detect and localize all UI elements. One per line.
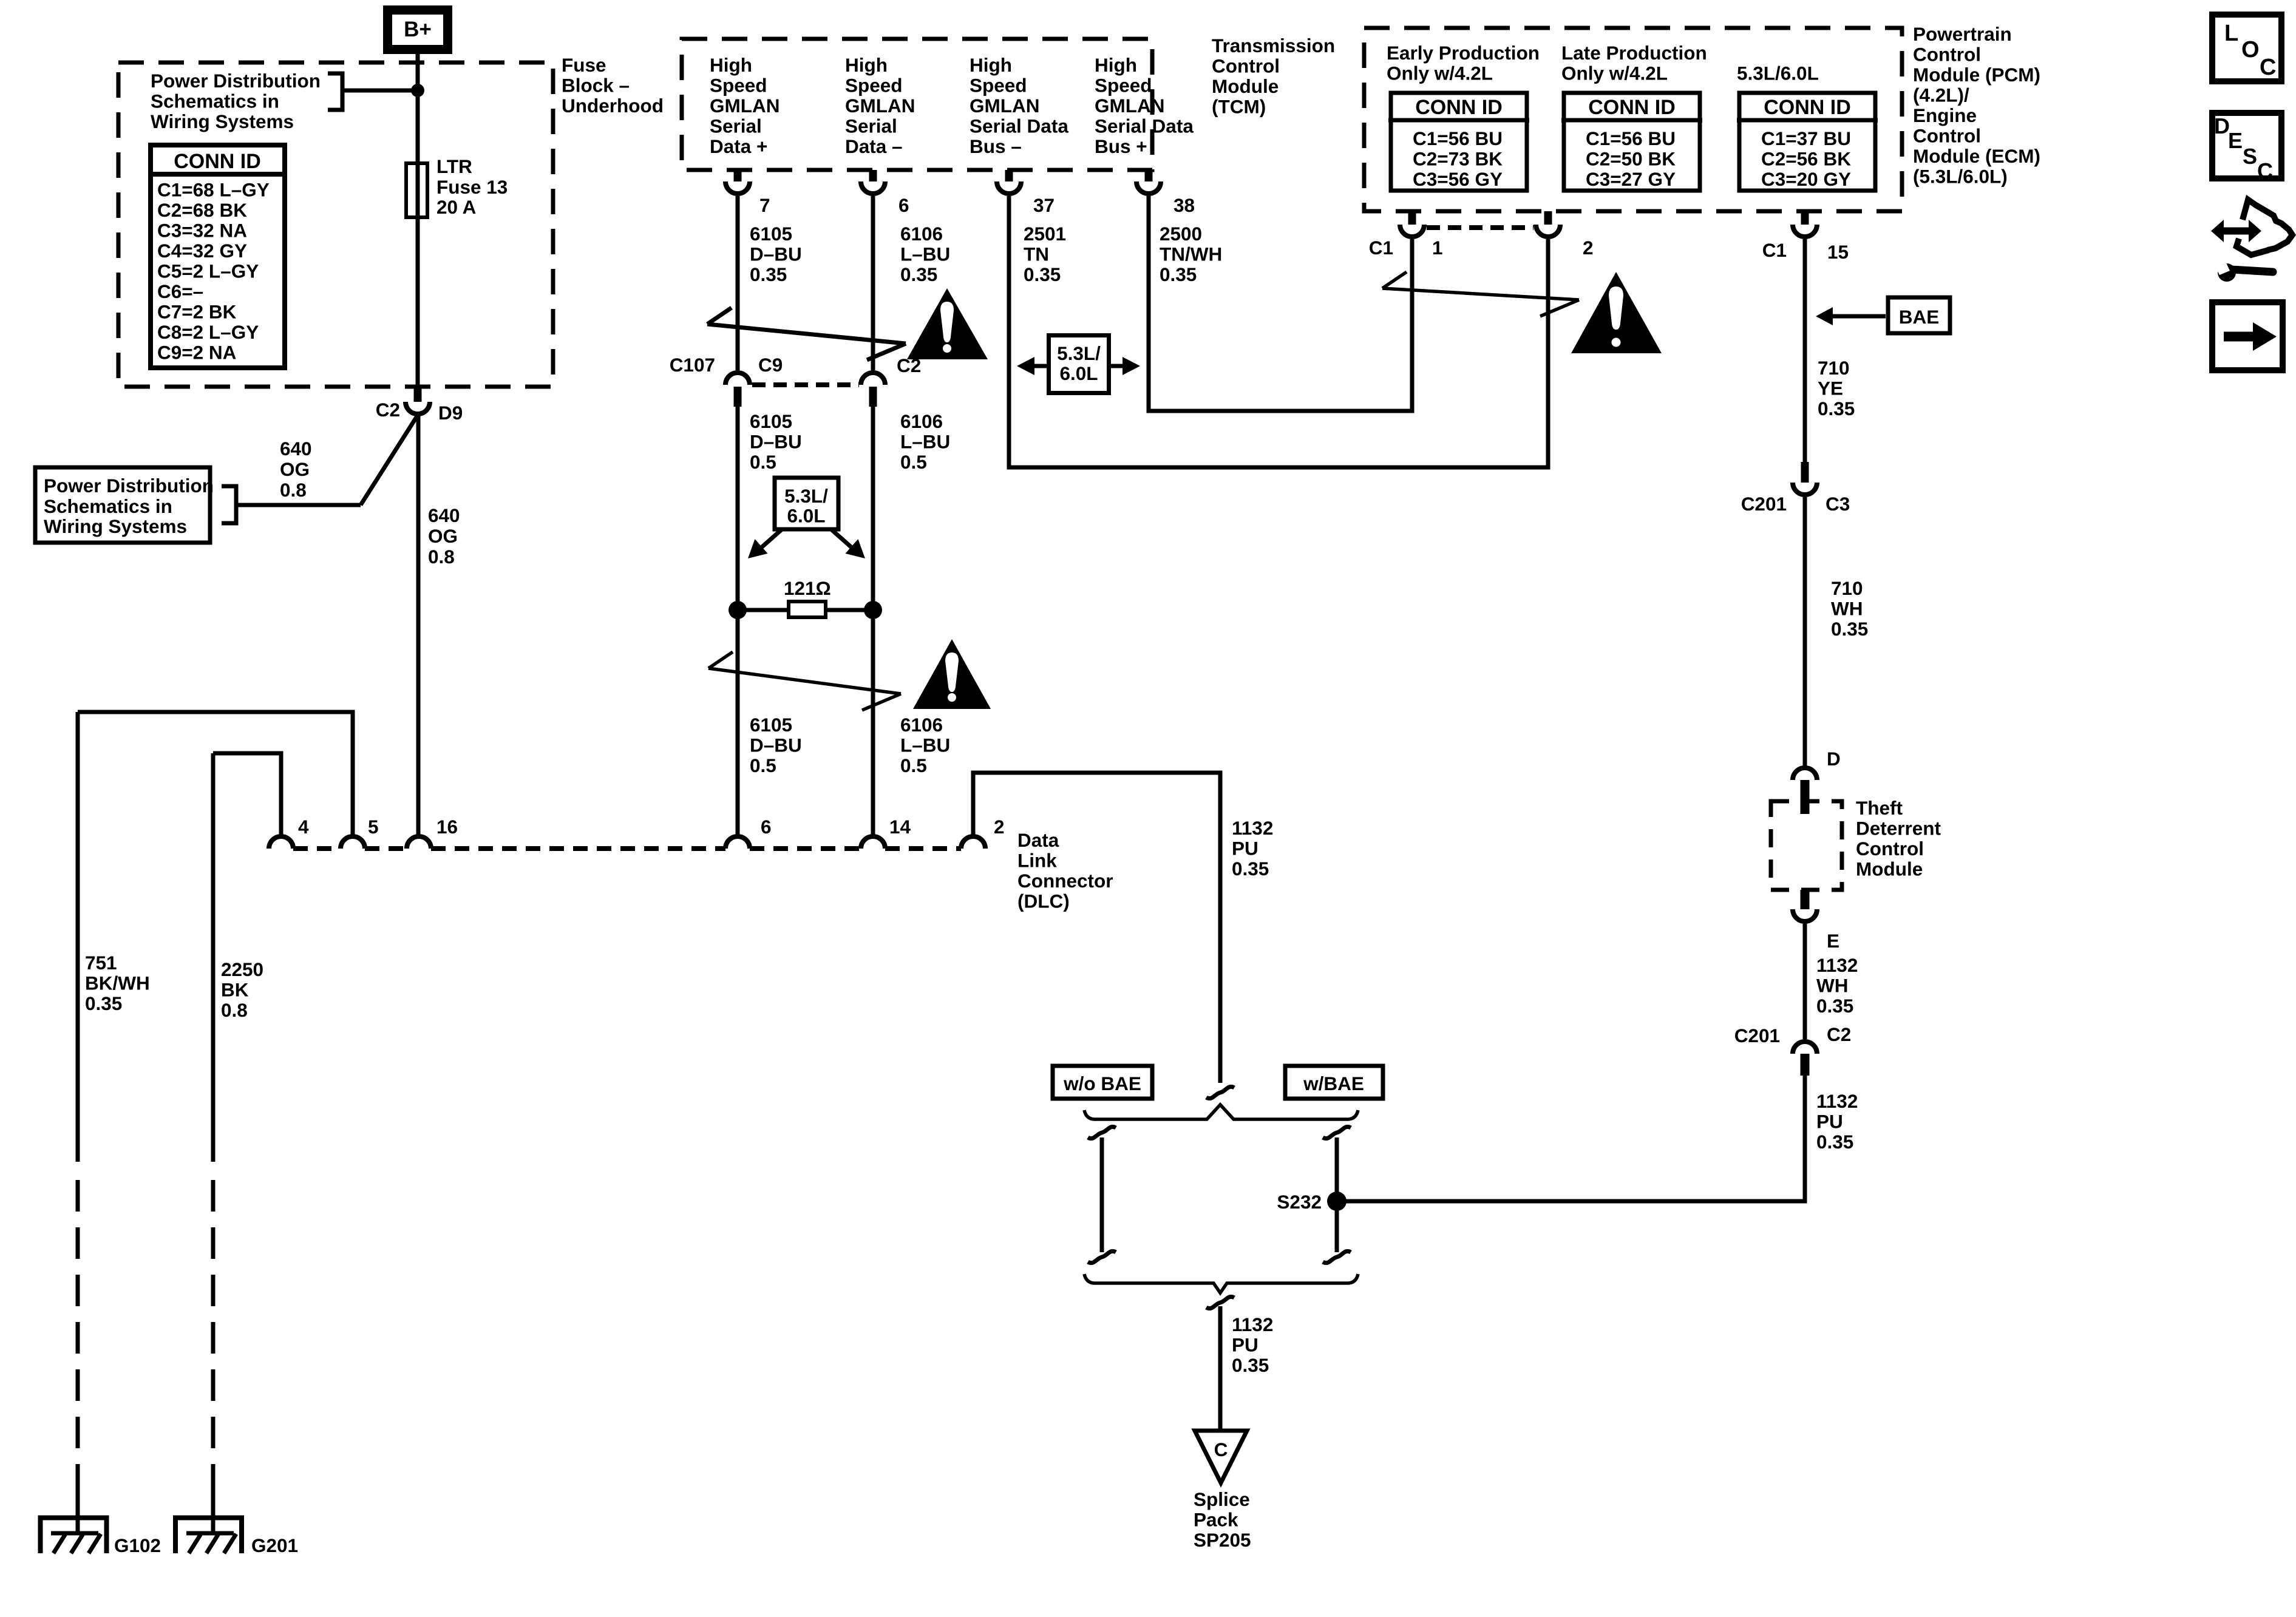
svg-text:C1=68 L–GY: C1=68 L–GY: [157, 179, 270, 201]
svg-text:Power Distribution: Power Distribution: [44, 475, 214, 497]
svg-text:6106: 6106: [900, 410, 943, 432]
svg-text:Data: Data: [1017, 829, 1059, 851]
svg-text:Transmission: Transmission: [1212, 35, 1335, 56]
splice S232: [1327, 1192, 1347, 1211]
svg-text:C1: C1: [1762, 239, 1787, 261]
svg-text:Schematics in: Schematics in: [151, 90, 279, 112]
svg-text:5.3L/6.0L: 5.3L/6.0L: [1737, 63, 1819, 84]
svg-text:Speed: Speed: [845, 75, 903, 97]
wire 2500 TN/WH to PCM pin 1: [1149, 196, 1412, 411]
svg-text:L–BU: L–BU: [900, 431, 950, 453]
svg-text:38: 38: [1173, 194, 1195, 216]
svg-text:C2=50 BK: C2=50 BK: [1586, 148, 1676, 170]
PCM pin 15 connector: [1801, 211, 1809, 225]
svg-text:CONN ID: CONN ID: [1764, 96, 1851, 119]
svg-text:GMLAN: GMLAN: [710, 95, 779, 117]
svg-text:2: 2: [1583, 237, 1594, 259]
TCM pin 7 connector: [734, 170, 742, 181]
PCM pin 1 connector: [1408, 211, 1416, 225]
svg-text:640: 640: [428, 504, 460, 526]
svg-text:S232: S232: [1277, 1191, 1322, 1213]
svg-text:C2: C2: [1827, 1023, 1851, 1045]
wire label 640 OG 0.8 (lower): [428, 504, 460, 568]
svg-text:Pack: Pack: [1194, 1509, 1238, 1531]
svg-text:C3: C3: [1826, 493, 1850, 515]
svg-text:710: 710: [1818, 357, 1850, 379]
wire E down: [1803, 924, 1807, 1039]
crossed arrow 2: [708, 652, 901, 710]
svg-text:0.35: 0.35: [1024, 263, 1061, 285]
svg-text:0.35: 0.35: [1160, 263, 1197, 285]
svg-text:TN: TN: [1024, 243, 1049, 265]
svg-text:E: E: [1827, 930, 1839, 952]
svg-text:LTR: LTR: [436, 155, 472, 177]
wire B+ down to C2/D9: [416, 54, 420, 388]
PCM CONN ID table 2: [1561, 93, 1702, 191]
svg-text:D: D: [1827, 748, 1841, 770]
5.3L/6.0L applicability box 2: [1017, 336, 1140, 393]
svg-text:Bus –: Bus –: [970, 135, 1022, 157]
svg-text:YE: YE: [1818, 378, 1843, 399]
svg-text:Theft: Theft: [1856, 797, 1903, 819]
ground G102: [41, 1494, 161, 1556]
svg-text:Speed: Speed: [970, 75, 1027, 97]
svg-text:0.5: 0.5: [900, 754, 927, 776]
svg-text:7: 7: [759, 194, 770, 216]
svg-text:C1: C1: [1369, 237, 1393, 259]
TCM pin name columns: [710, 54, 1194, 157]
crossed arrow 1 (twisted pair): [707, 308, 906, 360]
svg-text:Deterrent: Deterrent: [1856, 818, 1941, 839]
svg-text:C1=37 BU: C1=37 BU: [1761, 127, 1851, 149]
B+ terminal box: [388, 10, 448, 50]
svg-text:Module (ECM): Module (ECM): [1913, 145, 2040, 167]
svg-text:0.35: 0.35: [1818, 398, 1855, 419]
fuse block underhood dashed box: [118, 63, 553, 387]
crossed arrow 3: [1382, 272, 1579, 316]
wire diagonal from C2/D9 to power distribution bracket: [361, 415, 418, 505]
svg-text:High: High: [845, 54, 888, 76]
wire 6105 lower: [736, 407, 740, 836]
PCM CONN ID table 1: [1388, 93, 1529, 191]
svg-text:15: 15: [1827, 241, 1849, 263]
wire label 1132 PU 0.35 (upper): [1232, 817, 1273, 880]
dog head with double arrow and wrench icon: [2211, 200, 2292, 282]
svg-text:Block –: Block –: [562, 75, 630, 97]
svg-text:C9=2 NA: C9=2 NA: [157, 342, 236, 364]
svg-text:(4.2L)/: (4.2L)/: [1913, 84, 1969, 106]
break squiggle bottom: [1206, 1297, 1234, 1308]
svg-text:C6=–: C6=–: [157, 280, 203, 302]
svg-text:Serial: Serial: [710, 115, 762, 137]
svg-text:Connector: Connector: [1017, 870, 1113, 892]
svg-text:16: 16: [436, 816, 458, 838]
wire C3 down to D: [1803, 497, 1807, 768]
svg-text:C2=73 BK: C2=73 BK: [1413, 148, 1503, 170]
svg-text:Control: Control: [1913, 125, 1981, 147]
svg-text:C1=56 BU: C1=56 BU: [1586, 127, 1676, 149]
bracket to Power Distribution label: [328, 73, 342, 110]
svg-text:0.5: 0.5: [900, 451, 927, 473]
svg-text:C3=27 GY: C3=27 GY: [1586, 168, 1676, 190]
svg-text:C201: C201: [1734, 1025, 1780, 1046]
svg-text:C1=56 BU: C1=56 BU: [1413, 127, 1503, 149]
DLC pin numbers: [298, 816, 1005, 838]
svg-text:PU: PU: [1232, 1334, 1258, 1356]
svg-text:Only w/4.2L: Only w/4.2L: [1387, 63, 1493, 84]
CONN ID table (fuse block): [148, 145, 287, 368]
ground G201: [175, 1494, 298, 1556]
splice pack C triangle: [1195, 1431, 1247, 1483]
svg-text:Data +: Data +: [710, 135, 767, 157]
svg-text:Fuse: Fuse: [562, 54, 606, 76]
svg-text:OG: OG: [280, 458, 310, 480]
connector C201/C3: [1801, 462, 1809, 483]
svg-text:C: C: [2260, 55, 2276, 80]
svg-text:WH: WH: [1831, 598, 1863, 620]
svg-text:D–BU: D–BU: [750, 431, 802, 453]
PCM pin 2 connector: [1544, 211, 1552, 225]
Power Distribution Schematics box 2: [35, 467, 214, 543]
svg-text:L–BU: L–BU: [900, 734, 950, 756]
svg-text:Wiring Systems: Wiring Systems: [151, 110, 294, 132]
svg-text:High: High: [710, 54, 752, 76]
svg-text:1132: 1132: [1232, 1314, 1273, 1335]
label Powertrain Control Module: [1913, 23, 2040, 188]
svg-text:0.5: 0.5: [750, 451, 776, 473]
svg-text:2501: 2501: [1024, 223, 1066, 245]
svg-text:5.3L/: 5.3L/: [784, 485, 828, 507]
DESC icon box: [2212, 113, 2281, 183]
svg-text:Module: Module: [1212, 75, 1279, 97]
DLC pin 5 connector: [341, 836, 365, 849]
svg-text:C: C: [1214, 1439, 1228, 1460]
svg-text:D–BU: D–BU: [750, 243, 802, 265]
svg-text:BAE: BAE: [1899, 306, 1940, 328]
svg-text:Link: Link: [1017, 850, 1057, 872]
warning triangle 3: [1571, 272, 1662, 353]
svg-text:Schematics in: Schematics in: [44, 495, 172, 517]
label Fuse Block Underhood: [562, 54, 664, 117]
C107/C2 cup: [861, 373, 885, 385]
svg-text:High: High: [1095, 54, 1137, 76]
fuse LTR Fuse 13 20 A: [406, 155, 508, 218]
svg-text:GMLAN: GMLAN: [845, 95, 915, 117]
TCM pin 38 connector: [1145, 170, 1153, 181]
svg-text:Speed: Speed: [1095, 75, 1152, 97]
svg-text:BK/WH: BK/WH: [85, 972, 150, 994]
svg-text:C7=2 BK: C7=2 BK: [157, 301, 237, 323]
svg-text:TN/WH: TN/WH: [1160, 243, 1222, 265]
svg-text:20 A: 20 A: [436, 196, 476, 218]
svg-text:B+: B+: [404, 18, 432, 41]
svg-text:Serial Data: Serial Data: [1095, 115, 1194, 137]
svg-text:C2=68 BK: C2=68 BK: [157, 199, 247, 221]
top brace: [1084, 1105, 1358, 1119]
wire PCM pin 15 down: [1803, 239, 1807, 462]
PCM pin labels: [1369, 237, 1849, 263]
bracket to Power Distribution box 2: [222, 486, 236, 523]
resistor 121 ohm with junction dots: [729, 577, 882, 619]
svg-text:0.35: 0.35: [1831, 618, 1868, 640]
Theft Deterrent dashed box: [1771, 801, 1842, 890]
wire label 1132 PU 0.35 (below brace): [1232, 1314, 1273, 1376]
alternative wire left: [1088, 1127, 1116, 1263]
svg-text:Engine: Engine: [1913, 104, 1977, 126]
svg-text:High: High: [970, 54, 1012, 76]
svg-text:C2: C2: [376, 399, 400, 421]
svg-text:Control: Control: [1856, 838, 1924, 859]
svg-text:2: 2: [994, 816, 1005, 838]
svg-text:C2=56 BK: C2=56 BK: [1761, 148, 1851, 170]
svg-text:37: 37: [1033, 194, 1055, 216]
svg-text:C3=20 GY: C3=20 GY: [1761, 168, 1851, 190]
svg-text:OG: OG: [428, 525, 458, 547]
svg-text:0.35: 0.35: [1816, 1131, 1853, 1153]
svg-text:PU: PU: [1816, 1111, 1843, 1133]
svg-text:Early Production: Early Production: [1387, 42, 1540, 64]
svg-text:C: C: [2257, 158, 2273, 183]
svg-text:0.8: 0.8: [221, 999, 248, 1021]
svg-text:Serial: Serial: [845, 115, 897, 137]
svg-text:Fuse 13: Fuse 13: [436, 176, 508, 198]
svg-text:Serial Data: Serial Data: [970, 115, 1068, 137]
svg-text:D–BU: D–BU: [750, 734, 802, 756]
connector E: [1801, 890, 1810, 909]
svg-text:Module (PCM): Module (PCM): [1913, 64, 2040, 86]
svg-text:6105: 6105: [750, 223, 792, 245]
PCM column headers: [1387, 42, 1819, 84]
svg-text:751: 751: [85, 952, 117, 974]
wire labels 6105/6106 0.5 (upper pair): [750, 410, 950, 473]
svg-text:0.35: 0.35: [750, 263, 787, 285]
svg-text:6106: 6106: [900, 714, 943, 736]
C107/C9 cup: [725, 373, 750, 385]
label Power Distribution Schematics (in fuse block): [151, 70, 321, 132]
alternative wire right: [1323, 1127, 1351, 1263]
svg-text:6.0L: 6.0L: [787, 505, 825, 527]
svg-text:C3=32 NA: C3=32 NA: [157, 220, 247, 242]
wire label 1132 PU 0.35 (right): [1816, 1090, 1858, 1153]
svg-text:C107: C107: [670, 354, 715, 376]
TCM pin numbers: [759, 194, 1195, 216]
svg-text:0.35: 0.35: [1232, 858, 1269, 880]
dashed link C9-C2: [752, 382, 859, 387]
svg-text:C8=2 L–GY: C8=2 L–GY: [157, 321, 259, 343]
wire label 640 OG 0.8 (upper): [280, 438, 312, 501]
svg-text:710: 710: [1831, 577, 1863, 599]
svg-text:(5.3L/6.0L): (5.3L/6.0L): [1913, 166, 2008, 188]
svg-text:2500: 2500: [1160, 223, 1202, 245]
svg-text:6: 6: [761, 816, 772, 838]
svg-text:0.35: 0.35: [1232, 1354, 1269, 1376]
BAE box and arrow: [1816, 297, 1950, 333]
svg-text:0.35: 0.35: [85, 992, 122, 1014]
connector C2/D9 pin bar: [414, 388, 422, 402]
svg-text:w/BAE: w/BAE: [1303, 1073, 1364, 1094]
svg-text:(TCM): (TCM): [1212, 96, 1266, 118]
svg-text:C2: C2: [897, 354, 921, 376]
svg-text:CONN ID: CONN ID: [1588, 96, 1676, 119]
connector row C107 C9 / C2: [670, 354, 922, 376]
connector C2/D9 cup: [406, 402, 430, 414]
svg-text:6.0L: 6.0L: [1059, 362, 1098, 384]
svg-text:5.3L/: 5.3L/: [1057, 342, 1101, 364]
TCM pin 37 connector: [1005, 170, 1013, 181]
DLC pin 6 connector: [725, 836, 750, 849]
svg-text:WH: WH: [1816, 975, 1848, 997]
svg-text:14: 14: [889, 816, 911, 838]
svg-text:1132: 1132: [1232, 817, 1273, 839]
svg-text:E: E: [2228, 128, 2243, 153]
svg-text:C9: C9: [758, 354, 783, 376]
svg-text:6105: 6105: [750, 714, 792, 736]
svg-text:Late Production: Late Production: [1561, 42, 1707, 64]
bottom brace: [1084, 1274, 1358, 1293]
svg-text:GMLAN: GMLAN: [1095, 95, 1164, 117]
svg-text:w/o BAE: w/o BAE: [1063, 1073, 1141, 1094]
svg-text:Control: Control: [1212, 55, 1280, 77]
PCM dashed box: [1364, 28, 1902, 211]
svg-text:Wiring Systems: Wiring Systems: [44, 515, 187, 537]
dashed ground wires: [76, 1180, 80, 1494]
w/o BAE box: [1053, 1066, 1152, 1099]
connector C201/C2: [1734, 1023, 1852, 1046]
break squiggle top: [1206, 1086, 1234, 1098]
svg-text:BK: BK: [221, 979, 249, 1001]
warning triangle 1: [907, 288, 988, 359]
svg-text:5: 5: [368, 816, 379, 838]
svg-text:1132: 1132: [1816, 1090, 1858, 1112]
svg-text:0.5: 0.5: [750, 754, 776, 776]
wire labels 751 BK/WH and 2250 BK: [85, 952, 263, 1021]
svg-text:Bus +: Bus +: [1095, 135, 1147, 157]
svg-text:1132: 1132: [1816, 954, 1858, 976]
svg-text:(DLC): (DLC): [1017, 890, 1070, 912]
svg-text:O: O: [2241, 37, 2260, 63]
svg-text:Module: Module: [1856, 858, 1923, 880]
svg-text:0.8: 0.8: [428, 546, 455, 568]
wire to splice pack: [1218, 1306, 1223, 1431]
svg-text:C5=2 L–GY: C5=2 L–GY: [157, 260, 259, 282]
wire 6105 upper: [736, 196, 740, 370]
svg-text:640: 640: [280, 438, 312, 459]
label Transmission Control Module (TCM): [1212, 35, 1335, 118]
svg-text:GMLAN: GMLAN: [970, 95, 1039, 117]
svg-text:C201: C201: [1741, 493, 1787, 515]
label Splice Pack SP205: [1194, 1488, 1251, 1551]
svg-text:S: S: [2243, 144, 2257, 169]
svg-text:G102: G102: [114, 1534, 161, 1556]
w/BAE box: [1285, 1066, 1383, 1099]
label Data Link Connector (DLC): [1017, 829, 1113, 912]
DLC pin 14 connector: [861, 836, 885, 849]
LOC icon box: [2212, 15, 2281, 81]
svg-text:Splice: Splice: [1194, 1488, 1250, 1510]
wire labels 6105/6106 0.5 (lower pair): [750, 714, 950, 776]
svg-text:Data –: Data –: [845, 135, 903, 157]
svg-text:0.35: 0.35: [900, 263, 937, 285]
svg-text:4: 4: [298, 816, 309, 838]
svg-text:SP205: SP205: [1194, 1529, 1251, 1551]
svg-text:CONN ID: CONN ID: [174, 150, 261, 173]
pin bars below C107: [734, 387, 742, 407]
svg-text:PU: PU: [1232, 838, 1258, 859]
ground feed wires upper L-shapes: [78, 712, 353, 836]
svg-text:G201: G201: [251, 1534, 298, 1556]
TCM dashed box: [682, 39, 1152, 170]
wire label 710 YE 0.35: [1818, 357, 1855, 419]
wire 6106 upper: [871, 196, 875, 370]
DLC pin 2 connector: [961, 836, 985, 849]
wire 2501 TN to PCM pin 2: [1009, 196, 1548, 467]
svg-text:6106: 6106: [900, 223, 943, 245]
PCM CONN ID table 3: [1737, 93, 1878, 191]
warning triangle 2: [913, 639, 991, 709]
svg-text:121Ω: 121Ω: [784, 577, 831, 599]
svg-text:0.8: 0.8: [280, 479, 307, 501]
svg-text:D9: D9: [438, 402, 463, 424]
svg-text:Power Distribution: Power Distribution: [151, 70, 321, 92]
svg-text:C4=32 GY: C4=32 GY: [157, 240, 247, 262]
svg-text:6105: 6105: [750, 410, 792, 432]
svg-text:Underhood: Underhood: [562, 95, 664, 117]
wire labels 6105/6106/2501/2500: [750, 223, 1222, 285]
svg-text:CONN ID: CONN ID: [1415, 96, 1503, 119]
5.3L/6.0L applicability box 1: [748, 478, 865, 558]
svg-text:0.35: 0.35: [1816, 995, 1853, 1017]
wire label 710 WH 0.35: [1831, 577, 1868, 640]
svg-text:2250: 2250: [221, 958, 263, 980]
wire label 1132 WH 0.35: [1816, 954, 1858, 1017]
DLC pin 4 connector: [269, 836, 293, 849]
TCM pin 6 connector: [869, 170, 877, 181]
arrow icon box: [2212, 302, 2283, 370]
svg-text:L: L: [2224, 21, 2238, 46]
svg-text:C3=56 GY: C3=56 GY: [1413, 168, 1503, 190]
svg-text:L–BU: L–BU: [900, 243, 950, 265]
svg-text:Speed: Speed: [710, 75, 767, 97]
svg-text:6: 6: [898, 194, 909, 216]
wire bracket to node: [342, 89, 418, 93]
wire S232 to C201 C2: [1337, 1076, 1805, 1201]
dashed link pin1-pin2: [1427, 225, 1533, 230]
svg-text:Powertrain: Powertrain: [1913, 23, 2012, 45]
svg-text:Control: Control: [1913, 44, 1981, 66]
wire 640 OG down to DLC pin 16: [416, 415, 421, 836]
DLC dashed bus line: [293, 846, 961, 851]
node junction dot: [411, 84, 424, 97]
svg-text:1: 1: [1432, 237, 1443, 259]
wire DLC pin 2 up and over: [973, 773, 1220, 1083]
svg-text:Only w/4.2L: Only w/4.2L: [1561, 63, 1668, 84]
DLC pin 16 connector: [407, 836, 431, 849]
wire 6106 lower: [871, 407, 875, 836]
